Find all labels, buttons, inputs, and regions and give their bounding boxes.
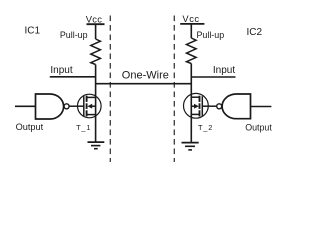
wire Vcc to resistor IC1 [95, 24, 97, 39]
resistor pull-up IC1 [60, 30, 101, 65]
resistor pull-up IC2 [187, 30, 225, 63]
svg-text:Pull-up: Pull-up [60, 30, 88, 40]
ground IC1 [88, 142, 105, 149]
svg-text:One-Wire: One-Wire [122, 69, 169, 81]
nand gate U1 input wire [15, 105, 36, 107]
svg-text:IC2: IC2 [247, 27, 263, 38]
Input wire IC1 [50, 65, 96, 77]
Input wire IC2 [191, 65, 235, 77]
dashed IC2 boundary [173, 16, 175, 163]
svg-text:Vcc: Vcc [86, 13, 103, 24]
wire resistor to ground column IC2 [190, 64, 192, 143]
nand gate U2 input bubble [217, 104, 222, 109]
transistor T_2 (n-MOSFET, mirrored) [184, 93, 214, 132]
nand gate U1 [36, 94, 64, 119]
svg-text:Input: Input [213, 65, 235, 76]
svg-text:Input: Input [50, 65, 72, 76]
dashed IC1 boundary [109, 16, 111, 163]
wire bubble to gate T_1 [69, 105, 84, 107]
svg-text:Output: Output [16, 122, 44, 132]
nand gate U2 output wire [251, 106, 272, 108]
nand gate U2 (mirrored) [222, 94, 250, 119]
wire gate T_2 to bubble [202, 105, 216, 107]
wire Vcc to resistor IC2 [190, 24, 192, 38]
One-Wire bus [96, 69, 192, 83]
Vcc supply IC1 [86, 13, 105, 24]
svg-text:Vcc: Vcc [182, 13, 199, 24]
svg-text:T_1: T_1 [76, 123, 91, 132]
svg-text:Pull-up: Pull-up [197, 30, 225, 40]
transistor T_1 (n-MOSFET) [76, 94, 101, 132]
svg-text:T_2: T_2 [198, 123, 213, 132]
wire resistor to ground column IC1 [95, 65, 97, 143]
nand gate U1 output bubble [64, 104, 69, 109]
Vcc supply IC2 [180, 13, 204, 24]
svg-text:IC1: IC1 [25, 26, 41, 37]
ground IC2 [182, 143, 199, 150]
svg-text:Output: Output [245, 123, 272, 133]
